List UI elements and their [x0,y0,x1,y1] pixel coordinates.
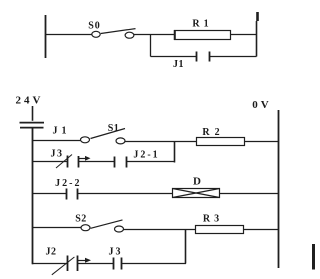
svg-text:24V: 24V [16,95,44,107]
svg-text:J2-1: J2-1 [133,150,159,161]
svg-text:R3: R3 [203,214,223,225]
svg-text:J3: J3 [109,247,123,258]
svg-text:S1: S1 [108,123,120,134]
svg-text:S2: S2 [75,214,87,225]
svg-text:J1: J1 [173,59,184,70]
svg-text:J2-2: J2-2 [55,178,81,189]
svg-text:0V: 0V [252,99,271,111]
svg-text:J1: J1 [53,126,71,137]
svg-text:R2: R2 [202,127,224,138]
svg-text:R1: R1 [192,19,212,30]
svg-text:D: D [193,176,201,188]
svg-text:J2: J2 [46,247,57,258]
svg-text:S0: S0 [88,21,101,32]
svg-text:J3: J3 [51,149,64,160]
